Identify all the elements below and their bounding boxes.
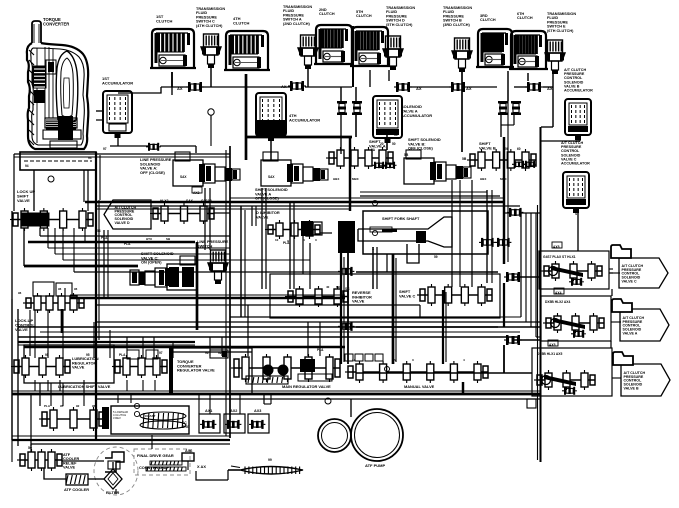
- svg-text:MBX: MBX: [352, 177, 359, 181]
- svg-text:94: 94: [25, 164, 29, 168]
- svg-text:97: 97: [103, 147, 107, 151]
- svg-text:AX3: AX3: [254, 409, 261, 413]
- svg-text:96: 96: [74, 287, 78, 291]
- svg-text:97: 97: [159, 351, 163, 355]
- svg-text:10: 10: [275, 238, 279, 242]
- svg-text:20: 20: [380, 142, 384, 146]
- svg-text:PLA: PLA: [119, 353, 126, 357]
- svg-text:MANUAL VALVE: MANUAL VALVE: [404, 384, 435, 389]
- svg-text:59: 59: [434, 255, 438, 259]
- svg-text:SAX: SAX: [268, 175, 275, 179]
- svg-text:HBX: HBX: [480, 177, 486, 181]
- svg-text:60: 60: [517, 147, 521, 151]
- svg-text:50: 50: [392, 142, 396, 146]
- svg-text:5A: 5A: [371, 148, 376, 152]
- svg-text:AX2: AX2: [230, 409, 237, 413]
- svg-text:40: 40: [326, 285, 330, 289]
- svg-text:92: 92: [76, 404, 80, 408]
- svg-text:99: 99: [268, 458, 272, 462]
- svg-text:COAST: COAST: [145, 414, 156, 418]
- svg-text:PLA: PLA: [283, 241, 290, 245]
- svg-text:FILTER: FILTER: [106, 490, 120, 495]
- svg-text:AX1: AX1: [205, 409, 212, 413]
- svg-text:HBX: HBX: [333, 177, 339, 181]
- svg-text:HTX: HTX: [146, 237, 152, 241]
- svg-text:SHIFT FORK SHAFT: SHIFT FORK SHAFT: [382, 216, 420, 221]
- svg-text:SAX: SAX: [180, 175, 187, 179]
- svg-text:ATF PUMP: ATF PUMP: [365, 463, 385, 468]
- svg-text:DX5B HLX2 AX4: DX5B HLX2 AX4: [545, 300, 571, 304]
- svg-text:FINAL DRIVE GEAR: FINAL DRIVE GEAR: [137, 453, 174, 458]
- svg-text:96: 96: [18, 291, 22, 295]
- svg-text:95: 95: [86, 353, 90, 357]
- svg-text:PLA: PLA: [44, 404, 51, 408]
- svg-text:96: 96: [58, 287, 62, 291]
- svg-text:ATF COOLER: ATF COOLER: [64, 487, 89, 492]
- svg-text:G4S7 PLAX ST HLX1: G4S7 PLAX ST HLX1: [543, 255, 576, 259]
- svg-text:5B: 5B: [462, 157, 467, 161]
- svg-text:5B: 5B: [404, 153, 409, 157]
- svg-text:MAIN REGULATOR VALVE: MAIN REGULATOR VALVE: [282, 384, 331, 389]
- svg-text:55: 55: [394, 133, 398, 137]
- svg-text:X AX: X AX: [197, 464, 206, 469]
